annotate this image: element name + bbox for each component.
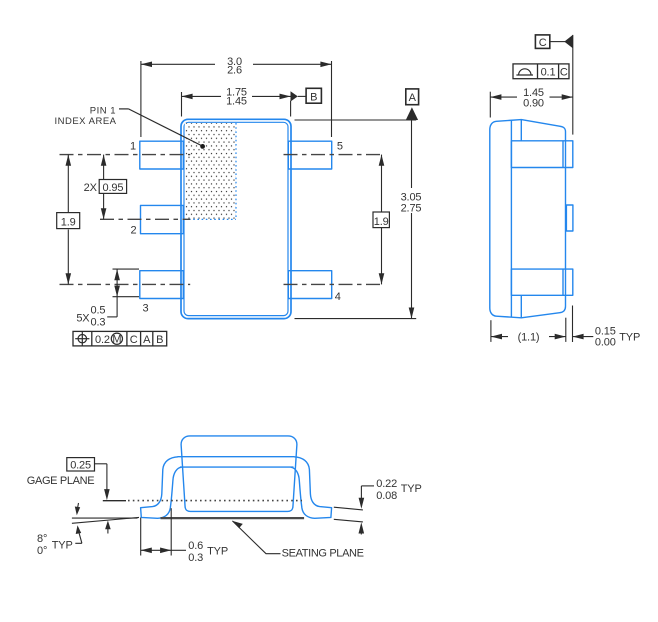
svg-text:0.08: 0.08: [376, 490, 397, 502]
svg-text:0.22: 0.22: [376, 478, 397, 490]
svg-text:C: C: [560, 66, 568, 78]
dimension 1.9 left: [67, 155, 69, 285]
svg-text:2: 2: [131, 225, 137, 237]
svg-text:4: 4: [335, 291, 341, 303]
svg-text:TYP: TYP: [207, 545, 228, 557]
surface profile symbol: [516, 69, 533, 75]
lead band lower line: [180, 466, 294, 468]
angle middle arrow: [107, 525, 109, 534]
dimension 1.75/1.45 body width: [182, 92, 291, 117]
svg-text:SEATING PLANE: SEATING PLANE: [282, 548, 364, 560]
datum B triangle: [291, 91, 298, 101]
svg-text:2.75: 2.75: [401, 202, 422, 214]
profile feature control frame 0.1 C: [513, 64, 569, 79]
side body draft line top: [520, 120, 522, 141]
left lead: [141, 457, 182, 519]
side body parting line: [510, 121, 512, 318]
svg-text:TYP: TYP: [401, 483, 422, 495]
dimension 0.15/0.00 TYP: [572, 306, 574, 343]
dimension 2X 0.95: [103, 155, 105, 220]
package body inner outline: [184, 122, 288, 315]
svg-text:0.2: 0.2: [95, 334, 110, 346]
lead tip plane extension line upper: [572, 35, 574, 135]
svg-text:0.90: 0.90: [523, 97, 544, 109]
seating plane line: [161, 517, 305, 519]
dimension 0.22/0.08 TYP lead thickness: [334, 486, 374, 535]
svg-text:8°: 8°: [37, 533, 47, 545]
svg-text:M: M: [112, 334, 121, 346]
svg-text:0.6: 0.6: [188, 540, 203, 552]
angle upper arrow: [77, 503, 79, 511]
position symbol: [78, 335, 86, 343]
side lead top body edge crossing: [562, 141, 564, 168]
svg-text:0.1: 0.1: [541, 66, 556, 78]
svg-text:A: A: [143, 334, 151, 346]
package body outer outline: [181, 119, 291, 318]
side body draft line bottom: [520, 295, 522, 318]
svg-text:1.9: 1.9: [61, 217, 76, 229]
svg-text:0°: 0°: [37, 545, 47, 557]
datum A triangle: [406, 107, 418, 120]
side lead bottom body edge crossing: [562, 269, 564, 295]
datum A box: [406, 89, 419, 105]
dimension 3.0/2.6 overall width: [141, 61, 332, 137]
svg-text:TYP: TYP: [52, 539, 73, 551]
side lead bottom: [511, 269, 572, 295]
centerline pin4 right: [284, 283, 382, 285]
dimension 1.9 right: [381, 155, 383, 285]
right lead (mirror): [291, 457, 332, 519]
datum C leader and triangle: [550, 41, 565, 43]
stipple dotted blue border right: [235, 123, 237, 219]
svg-text:0.3: 0.3: [91, 317, 106, 329]
svg-text:5X: 5X: [76, 313, 90, 325]
svg-text:5: 5: [337, 141, 343, 153]
pin 5 (right top): [288, 141, 331, 169]
M circle: [111, 333, 122, 344]
dimension 5X 0.5/0.3 pin width: [107, 269, 139, 317]
svg-text:0.95: 0.95: [102, 182, 123, 194]
pin 2 (left middle): [141, 205, 184, 233]
svg-text:0.15: 0.15: [595, 325, 616, 337]
gage plane dotted line: [128, 500, 302, 502]
svg-text:INDEX AREA: INDEX AREA: [54, 116, 116, 127]
svg-text:1: 1: [130, 141, 136, 153]
gage leader: [95, 464, 107, 496]
side lead top: [511, 141, 572, 168]
svg-text:3: 3: [143, 303, 149, 315]
svg-text:B: B: [156, 334, 163, 346]
svg-text:C: C: [130, 334, 138, 346]
side body outline: [490, 120, 566, 318]
svg-text:B: B: [310, 92, 317, 104]
pin 4 (right bottom): [288, 271, 331, 299]
svg-text:TYP: TYP: [619, 332, 640, 344]
dimension 0.6/0.3 TYP: [141, 508, 186, 555]
gage 0.25 box: [67, 458, 95, 471]
svg-text:GAGE PLANE: GAGE PLANE: [27, 475, 94, 487]
dimension 3.05/2.75 body length: [295, 120, 417, 319]
1.75 dim right arrow: [280, 94, 291, 100]
centerline pin5 right: [284, 154, 382, 156]
centerline pin2: [100, 218, 190, 220]
svg-text:1.9: 1.9: [374, 216, 389, 228]
pin 1 (left top): [140, 141, 184, 169]
svg-text:0.3: 0.3: [188, 552, 203, 564]
svg-text:A: A: [409, 92, 417, 104]
svg-text:2X: 2X: [84, 182, 98, 194]
gage plane solid segment: [103, 500, 126, 502]
stipple dotted blue border bottom: [185, 218, 236, 220]
svg-text:C: C: [539, 37, 547, 49]
svg-text:(1.1): (1.1): [518, 332, 540, 344]
centerline pin1 left: [60, 154, 191, 156]
pin 1 index area stipple: [185, 123, 236, 219]
angle lower-left arrow leader to TYP: [75, 530, 82, 544]
lead band upper line: [178, 456, 295, 458]
svg-text:PIN 1: PIN 1: [90, 106, 116, 117]
dimension 1.45/0.90 height: [490, 92, 573, 118]
pin 3 (left bottom): [140, 271, 184, 299]
svg-text:0.5: 0.5: [91, 305, 106, 317]
feature control frame position 0.2 M C A B: [73, 331, 167, 346]
angle wedge lines: [72, 517, 138, 519]
datum B box: [306, 88, 321, 103]
side middle lead stub: [566, 205, 573, 231]
svg-text:0.00: 0.00: [595, 337, 616, 349]
dimension (1.1): [491, 318, 566, 342]
svg-text:2.6: 2.6: [227, 65, 242, 77]
pin number labels: [130, 141, 343, 315]
centerline pin3 left: [60, 283, 191, 285]
profile body: [141, 436, 332, 518]
svg-text:1.45: 1.45: [226, 96, 247, 108]
SEATING PLANE label and leader: [232, 521, 280, 554]
leader to index area: [119, 109, 202, 146]
datum C box: [535, 35, 549, 49]
svg-text:0.25: 0.25: [70, 459, 91, 471]
